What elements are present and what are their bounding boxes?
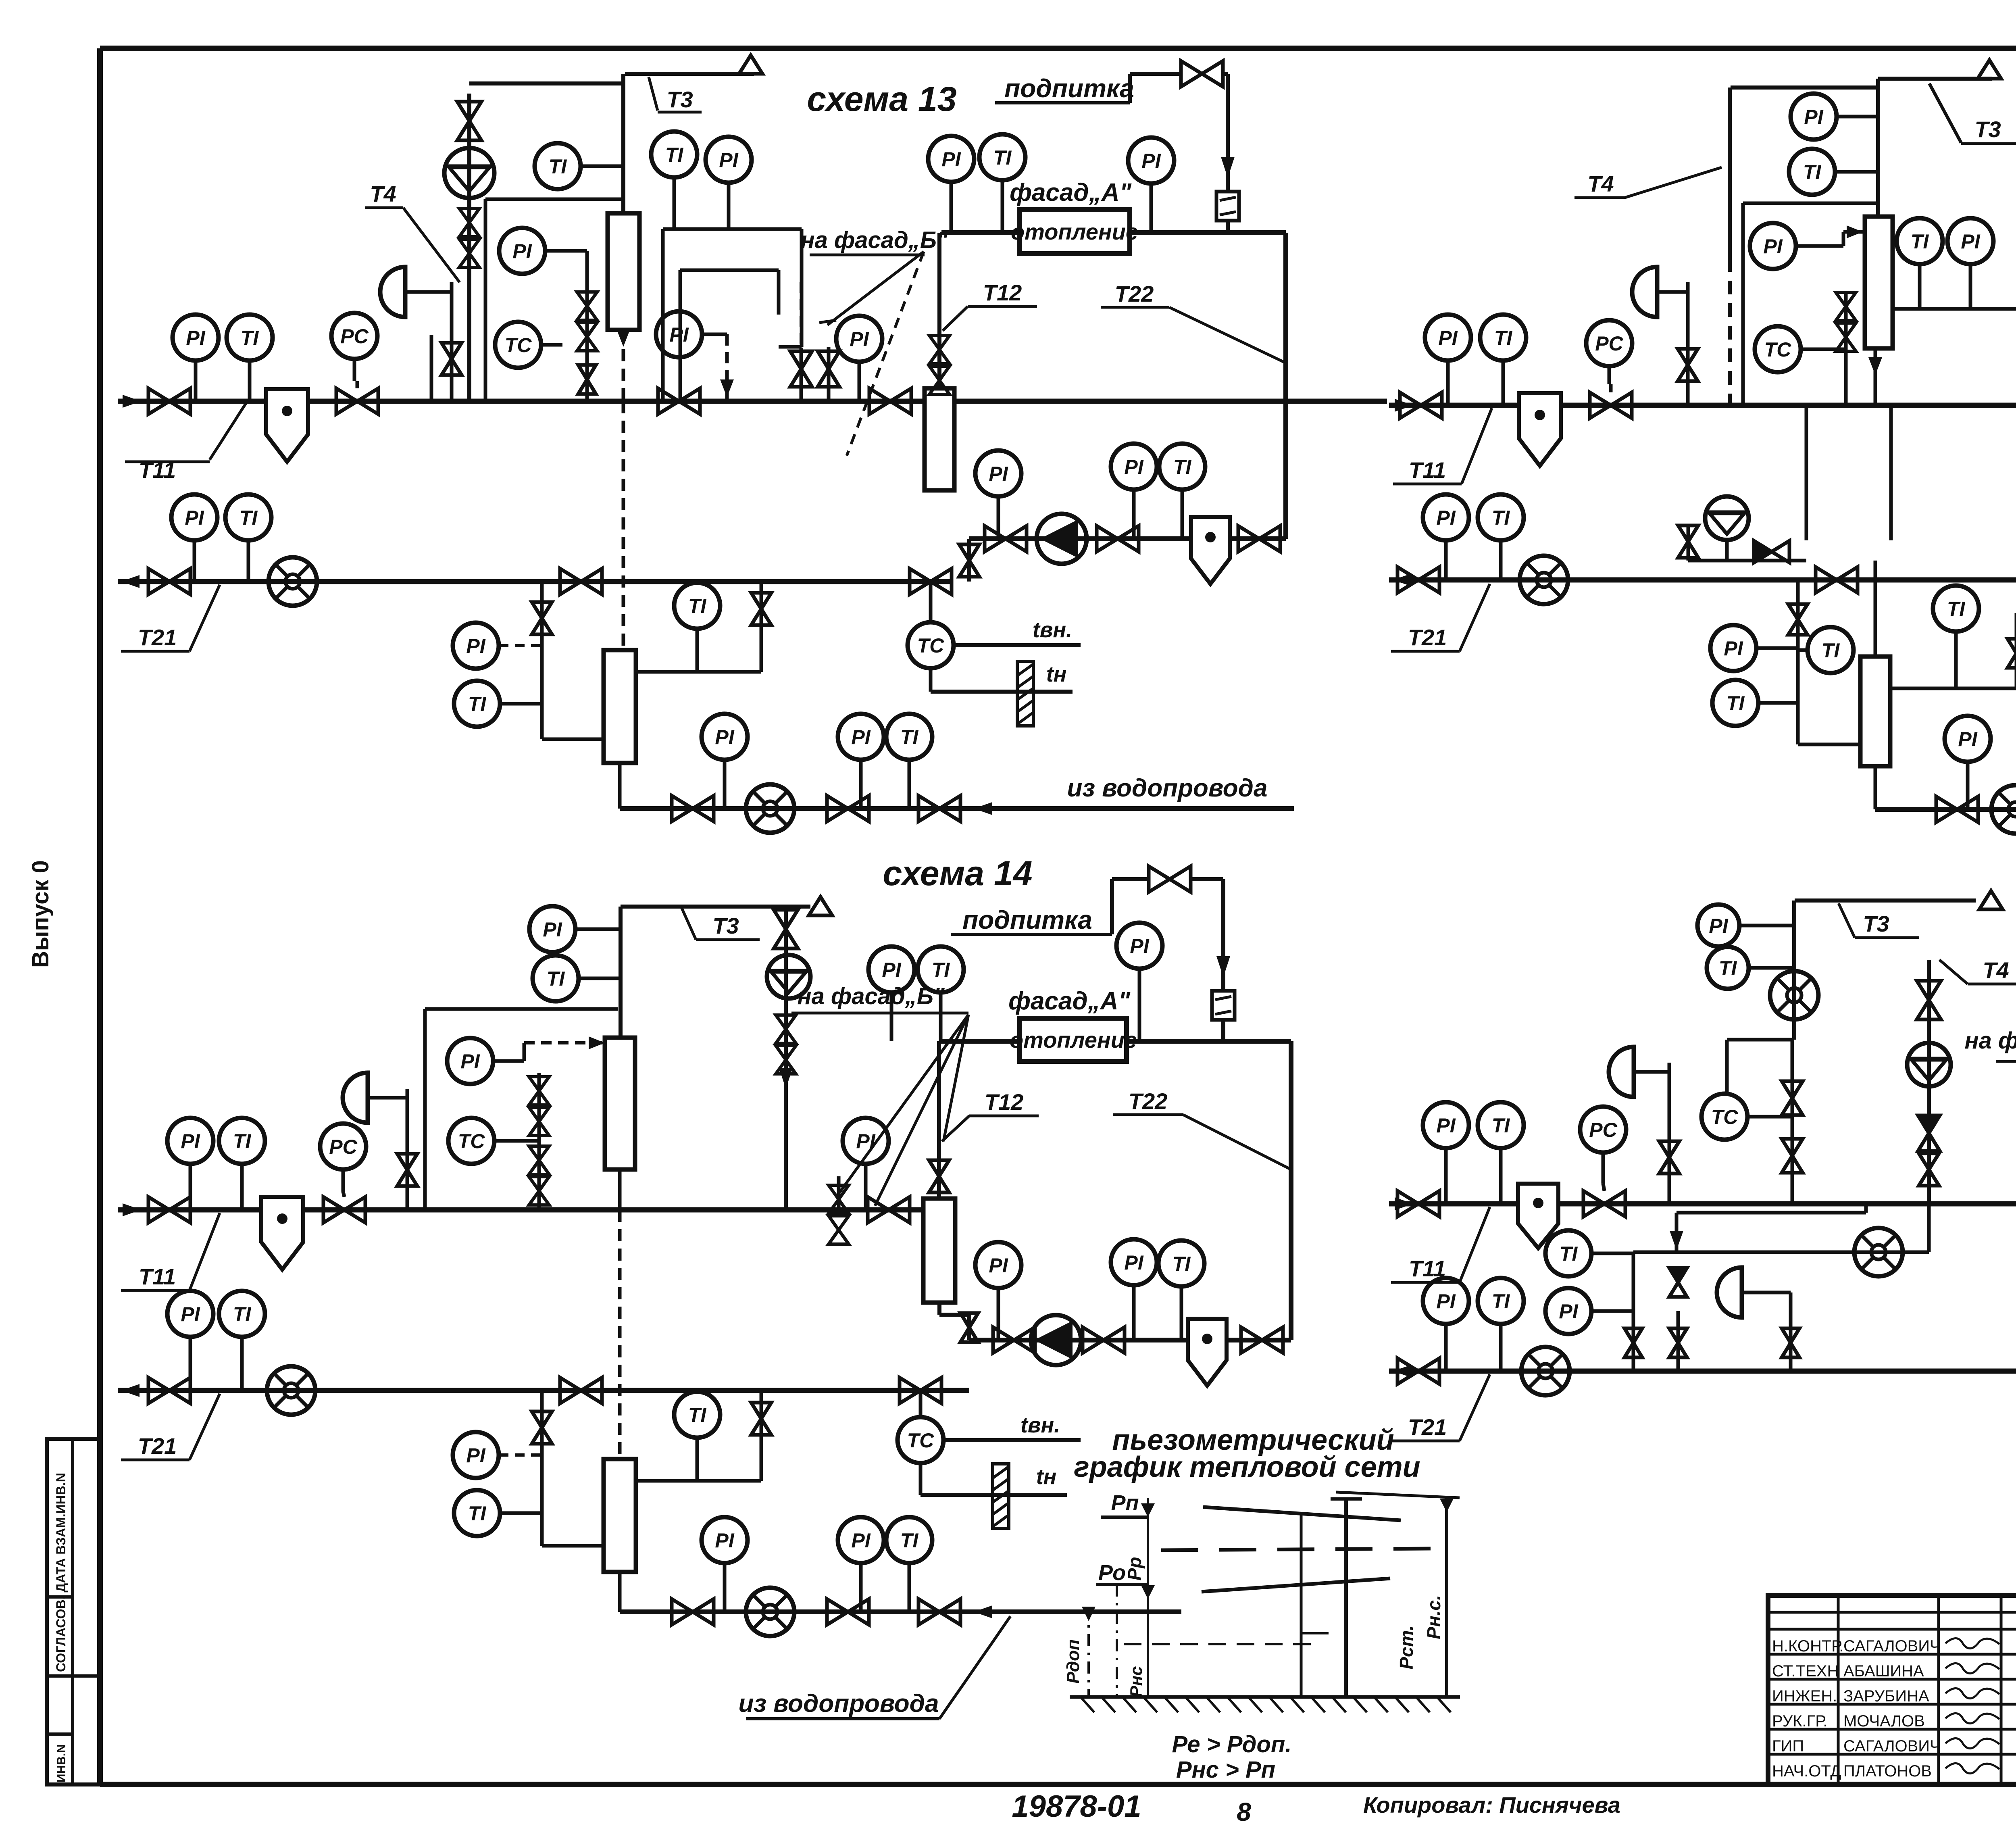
water main line (scheme 15) (1874, 766, 1877, 809)
svg-text:Т22: Т22 (1129, 1088, 1168, 1114)
water valve (672, 1599, 714, 1625)
instrument PI (173, 315, 219, 401)
T11 supply pipe (scheme 14) (118, 1207, 923, 1213)
svg-text:TI: TI (900, 726, 919, 748)
instrument TI (1478, 1102, 1524, 1204)
instrument PI (1697, 905, 1794, 946)
pump (1031, 1315, 1081, 1365)
valve under HX (960, 1313, 978, 1342)
heating circuit top line (939, 1039, 1291, 1044)
instrument TI (979, 134, 1025, 233)
dim arrow (1141, 1585, 1155, 1599)
heat exchanger 3 (604, 650, 636, 763)
mud collector (1188, 1319, 1227, 1386)
svg-text:Т12: Т12 (983, 280, 1022, 305)
instrument TI (918, 946, 964, 1041)
svg-text:Т4: Т4 (1983, 957, 2009, 983)
T4 riser (scheme 14) (784, 907, 788, 1210)
instrument TI (674, 583, 720, 672)
valve on T11 (1397, 1191, 1439, 1217)
dim arrow (1440, 1499, 1454, 1512)
elevator pump (1907, 1043, 1951, 1086)
dim arrow (1141, 1503, 1155, 1517)
flow arrow (1221, 157, 1235, 178)
instrument TI (454, 1490, 542, 1536)
valve (1782, 1328, 1799, 1357)
instrument PI (706, 137, 752, 229)
T3 header box (625, 72, 754, 76)
instrument TI (454, 681, 542, 727)
svg-text:Копировал: Писнячева: Копировал: Писнячева (1363, 1792, 1620, 1818)
svg-text:tн: tн (1046, 662, 1067, 686)
water valve (1936, 796, 1978, 822)
instrument TC (1702, 1094, 1792, 1140)
instrument PI (171, 494, 217, 582)
make-up regulator (1216, 192, 1239, 221)
svg-text:TI: TI (688, 1404, 707, 1426)
svg-text:Т3: Т3 (712, 913, 739, 938)
svg-text:PI: PI (466, 1444, 485, 1467)
heat exchanger 3 (scheme 15) (1860, 657, 1890, 766)
svg-text:tн: tн (1036, 1465, 1057, 1489)
instrument PI (1791, 94, 1878, 140)
return flow arrow (121, 575, 140, 588)
svg-text:Т11: Т11 (139, 1264, 176, 1289)
instrument TI (1707, 947, 1794, 989)
svg-text:PI: PI (512, 240, 532, 263)
vent flag (1978, 60, 2001, 79)
valve (1919, 1153, 1939, 1186)
instrument PI (1128, 138, 1174, 233)
svg-text:TI: TI (1173, 1253, 1191, 1275)
instrument PC (320, 1124, 366, 1192)
svg-text:PI: PI (882, 959, 901, 981)
balancing valves (1836, 292, 1856, 351)
svg-text:на фасад„Б": на фасад„Б" (801, 227, 948, 253)
svg-text:ИНЖЕН.: ИНЖЕН. (1772, 1687, 1837, 1705)
instrument TI (535, 143, 623, 189)
T3 header (scheme 16) (1795, 898, 1976, 903)
instrument TI (1933, 586, 1979, 688)
svg-text:PI: PI (989, 463, 1008, 485)
svg-text:TI: TI (241, 327, 259, 349)
instrument PI (167, 1291, 213, 1390)
svg-text:PI: PI (1724, 637, 1743, 660)
valve before HX (869, 388, 911, 414)
svg-text:TI: TI (1560, 1242, 1578, 1265)
heat exchanger 1 (scheme 15) (1865, 217, 1893, 348)
svg-text:АБАШИНА: АБАШИНА (1843, 1662, 1924, 1680)
T21 return pipe (scheme 14) (118, 1388, 969, 1393)
wall sensor (1017, 661, 1033, 726)
flow meter (1770, 971, 1818, 1019)
svg-text:Н.КОНТР.: Н.КОНТР. (1772, 1637, 1844, 1655)
valve (1678, 525, 1698, 558)
svg-text:СТ.ТЕХН: СТ.ТЕХН (1772, 1662, 1839, 1680)
svg-text:отопление: отопление (1011, 219, 1138, 244)
valve on T21 (1816, 567, 1858, 593)
svg-text:TC: TC (458, 1130, 485, 1153)
control valve (336, 388, 378, 414)
inner frame (1741, 203, 1745, 405)
instrument PI (1111, 444, 1157, 539)
svg-text:Т4: Т4 (1587, 171, 1614, 196)
svg-text:Рнс: Рнс (1127, 1666, 1145, 1697)
T3 riser with flow meter (1792, 901, 1796, 1040)
instrument PC (1580, 1107, 1626, 1184)
svg-text:PI: PI (1124, 456, 1143, 478)
return flow arrow (121, 1384, 140, 1397)
svg-text:TI: TI (1727, 692, 1745, 715)
check arrow (1670, 1231, 1683, 1250)
svg-text:PI: PI (715, 1529, 734, 1552)
flow meter (1854, 1228, 1903, 1276)
bypass valve B (818, 351, 839, 387)
balancing valves A (529, 1077, 549, 1136)
svg-text:САГАЛОВИЧ: САГАЛОВИЧ (1843, 1637, 1941, 1655)
svg-text:Рн.с.: Рн.с. (1423, 1595, 1444, 1639)
instrument PI (167, 1118, 213, 1210)
instrument PI (928, 136, 974, 233)
elevator pump (767, 955, 810, 999)
water meter valve (827, 796, 869, 821)
svg-text:Т21: Т21 (138, 625, 177, 650)
supply flow arrow (123, 1203, 141, 1216)
regulator actuator (1717, 1267, 1742, 1317)
valve under HX (959, 544, 979, 577)
water valve (672, 796, 714, 821)
circuit pump line (scheme 14) (937, 1303, 941, 1315)
svg-text:PI: PI (543, 918, 562, 941)
right boundary vertical (1445, 1498, 1448, 1697)
svg-text:PC: PC (329, 1136, 357, 1158)
svg-text:PI: PI (669, 323, 689, 346)
instrument PI (447, 1038, 524, 1084)
instrument PI (1710, 625, 1798, 671)
P_dop dimension (1087, 1607, 1090, 1697)
svg-text:Т21: Т21 (1408, 625, 1447, 650)
svg-text:PI: PI (851, 1529, 871, 1552)
T21 return pipe (118, 579, 952, 584)
svg-text:TI: TI (665, 144, 684, 166)
instrument TI (1159, 444, 1205, 539)
instrument PI (843, 1118, 889, 1210)
svg-text:PC: PC (340, 325, 369, 348)
instrument PI (529, 906, 621, 952)
vent flag (739, 55, 762, 74)
pump discharge valve (1083, 1327, 1125, 1353)
circuit right edge (1283, 233, 1288, 539)
svg-text:Т22: Т22 (1115, 281, 1154, 306)
heating radiator box (1019, 210, 1130, 254)
svg-text:Рнс > Рп: Рнс > Рп (1176, 1757, 1275, 1783)
make-up riser (1226, 221, 1230, 233)
svg-text:отопление: отопление (1010, 1027, 1137, 1053)
svg-text:на фасад„Б": на фасад„Б" (798, 983, 945, 1009)
pump (1037, 514, 1087, 564)
arrow into HX (1847, 225, 1863, 238)
svg-text:TI: TI (468, 1502, 487, 1525)
svg-text:8: 8 (1237, 1797, 1251, 1824)
svg-text:ЗАРУБИНА: ЗАРУБИНА (1843, 1687, 1929, 1705)
supply flow arrow (1395, 1197, 1413, 1210)
instrument PI (1750, 223, 1843, 269)
svg-text:ИНВ.N: ИНВ.N (55, 1744, 68, 1782)
mud collector (1518, 1184, 1558, 1248)
svg-text:PI: PI (1141, 150, 1161, 172)
impulse valve (1659, 1141, 1679, 1174)
T3 header box (1731, 85, 1878, 90)
svg-text:ГИП: ГИП (1772, 1737, 1804, 1755)
left margin stamp table (47, 1439, 100, 1784)
instrument PI (1423, 494, 1469, 580)
impulse valve (442, 343, 462, 375)
svg-text:TC: TC (907, 1429, 935, 1452)
svg-text:PI: PI (1763, 235, 1783, 258)
balancing valves (577, 292, 597, 351)
svg-text:PI: PI (1436, 1114, 1456, 1137)
up arrow (779, 1068, 793, 1089)
valve on DHW riser (532, 1411, 552, 1444)
instrument PI (453, 1432, 499, 1478)
svg-text:Т11: Т11 (1409, 457, 1446, 483)
instrument PI (453, 623, 499, 669)
P_ns dimension line (1124, 1643, 1315, 1645)
instrument TI (1478, 494, 1524, 580)
svg-text:TI: TI (993, 146, 1012, 169)
valve on T11 (148, 388, 190, 414)
flow meter (269, 557, 317, 606)
return flow arrow (1393, 1365, 1412, 1378)
instrument PI (499, 228, 587, 274)
svg-text:TI: TI (1492, 1290, 1510, 1313)
mud collector (1519, 393, 1561, 466)
water inlet valve (918, 1599, 960, 1625)
svg-text:TI: TI (1947, 598, 1966, 620)
instrument PC (1586, 320, 1632, 384)
svg-text:PI: PI (1436, 1290, 1456, 1313)
svg-text:PI: PI (1961, 230, 1980, 253)
svg-text:подпитка: подпитка (1004, 74, 1134, 103)
T21 return pipe (scheme 16) (1389, 1369, 2016, 1374)
T11 leader (125, 403, 246, 462)
svg-text:схема 13: схема 13 (807, 80, 956, 119)
heat exchanger 2 (scheme 14) (923, 1199, 955, 1303)
svg-text:Т21: Т21 (138, 1433, 177, 1459)
instrument PI (1425, 315, 1471, 405)
svg-text:TI: TI (932, 959, 950, 981)
svg-text:Т12: Т12 (985, 1089, 1024, 1115)
elevator pump (1705, 496, 1749, 540)
svg-text:19878-01: 19878-01 (1012, 1789, 1141, 1824)
valve (578, 365, 596, 394)
svg-text:PI: PI (1130, 935, 1149, 957)
check valve (1918, 1115, 1940, 1151)
flow meter (267, 1366, 315, 1415)
valve on T11 (1400, 392, 1442, 418)
svg-text:TI: TI (1822, 639, 1840, 662)
heat exchanger 1 (608, 213, 639, 330)
svg-text:РУК.ГР.: РУК.ГР. (1772, 1712, 1828, 1730)
valve at TC branch (910, 569, 952, 594)
instrument PI (975, 450, 1021, 539)
elevator pump (444, 148, 494, 198)
instrument TI (1158, 1240, 1204, 1340)
bypass valves (829, 1185, 849, 1244)
svg-text:TI: TI (233, 1130, 252, 1153)
make-up regulator (1212, 991, 1235, 1020)
svg-text:TI: TI (1492, 1114, 1510, 1137)
instrument TC (898, 1417, 943, 1463)
svg-text:TI: TI (900, 1529, 919, 1552)
double valve on T4 (459, 208, 479, 267)
instrument TI (225, 494, 271, 582)
water meter valve (827, 1599, 869, 1625)
svg-text:TC: TC (1711, 1106, 1739, 1128)
svg-text:ПЛАТОНОВ: ПЛАТОНОВ (1843, 1762, 1932, 1780)
valve on T11 (658, 388, 700, 414)
mixing valve B (1782, 1139, 1803, 1173)
valve on T21 (148, 1378, 190, 1403)
balancing valves B (529, 1146, 549, 1205)
valve at TC branch (900, 1378, 941, 1403)
svg-text:PI: PI (186, 327, 205, 349)
svg-text:Ро: Ро (1098, 1561, 1126, 1585)
svg-text:PI: PI (1709, 915, 1728, 937)
P_p head line (1203, 1507, 1401, 1520)
supply flow arrow (1395, 399, 1413, 412)
svg-text:Т4: Т4 (370, 181, 396, 206)
mud collector (261, 1197, 303, 1270)
regulator actuator (343, 1073, 368, 1123)
instrument TC (1755, 326, 1846, 372)
check valve (1669, 1268, 1687, 1297)
svg-text:PI: PI (185, 507, 204, 529)
svg-text:TI: TI (233, 1303, 252, 1326)
instrument TI (651, 131, 697, 229)
fan leaders to facade B (827, 252, 924, 325)
instrument PI (1423, 1102, 1469, 1204)
make-up valve (1181, 61, 1223, 87)
instrument PI (1111, 1239, 1157, 1340)
flow meter (746, 784, 794, 833)
instrument TI (1545, 1230, 1633, 1276)
svg-text:TI: TI (1803, 161, 1822, 183)
svg-text:Ре > Рдоп.: Ре > Рдоп. (1172, 1731, 1291, 1757)
heat exchanger 1 (scheme 14) (605, 1038, 635, 1169)
svg-text:Т21: Т21 (1408, 1414, 1447, 1440)
instrument TC (908, 622, 954, 668)
svg-text:TI: TI (240, 507, 258, 529)
svg-text:PI: PI (460, 1050, 480, 1073)
instrument TI (886, 714, 932, 809)
svg-text:Рп: Рп (1111, 1491, 1139, 1515)
heating regulator piping (663, 227, 802, 231)
svg-text:TI: TI (1719, 957, 1737, 980)
regulator actuator (1609, 1047, 1634, 1097)
svg-text:PI: PI (719, 149, 738, 171)
flow arrow (1216, 956, 1230, 977)
instrument TI (1799, 627, 1854, 673)
svg-text:TI: TI (468, 693, 487, 715)
mixing box (1727, 1038, 1794, 1042)
T4 riser (467, 94, 471, 401)
pump suction valve (985, 526, 1027, 552)
instrument TI (1789, 149, 1878, 195)
svg-text:PI: PI (466, 635, 485, 657)
flow meter (1520, 556, 1568, 604)
instrument PI (868, 946, 914, 1041)
impulse valve (397, 1154, 417, 1186)
control valve (1590, 392, 1632, 418)
svg-text:фасад„А": фасад„А" (1010, 179, 1132, 206)
svg-text:PC: PC (1595, 332, 1623, 355)
arrow up (720, 379, 734, 397)
svg-text:PI: PI (1958, 728, 1977, 750)
instrument PI (702, 714, 748, 809)
valve on T21 (1397, 567, 1439, 593)
instrument PI (838, 1517, 884, 1612)
fan leaders to facade B (839, 1015, 968, 1194)
T3 riser (scheme 14) (619, 907, 623, 1038)
water main line (scheme 14) (618, 1572, 622, 1612)
T11 supply pipe (118, 399, 925, 404)
heat exchanger 3 (scheme 14) (604, 1459, 636, 1572)
svg-text:TI: TI (1911, 230, 1929, 253)
regulator actuator (380, 267, 405, 317)
title block frame (1768, 1595, 2016, 1784)
make-up valve (1149, 866, 1191, 892)
svg-text:TI: TI (1492, 507, 1510, 529)
supply flow arrow (123, 395, 141, 408)
svg-text:Т3: Т3 (1863, 911, 1889, 936)
valve on T21 (560, 1378, 602, 1403)
instrument TC (448, 1118, 539, 1164)
instrument PC (331, 313, 377, 381)
heating circuit top line (941, 230, 1286, 235)
circuit pump line (969, 536, 1286, 541)
svg-text:PI: PI (715, 726, 734, 748)
svg-text:Рст.: Рст. (1396, 1625, 1417, 1669)
svg-text:PC: PC (1589, 1119, 1617, 1141)
water main line (618, 763, 622, 809)
svg-text:TC: TC (917, 634, 945, 657)
impulse valve (1678, 349, 1698, 381)
instrument PI (1945, 716, 1991, 809)
svg-text:PI: PI (1559, 1300, 1578, 1323)
valve on T4 (457, 102, 481, 140)
svg-text:PI: PI (989, 1254, 1008, 1277)
P_o drop vertical (1116, 1584, 1118, 1697)
instrument PI (1545, 1288, 1633, 1334)
svg-text:PI: PI (850, 328, 869, 350)
instrument TI (227, 315, 273, 401)
flow meter (746, 1588, 794, 1636)
T21 return pipe (scheme 15) (1389, 577, 2016, 583)
arrow up into HX (1868, 357, 1882, 375)
svg-text:PI: PI (1124, 1251, 1143, 1274)
arrow into HX (589, 1036, 605, 1049)
instrument TI (219, 1118, 265, 1210)
svg-text:фасад„А": фасад„А" (1008, 987, 1131, 1015)
valve (1669, 1328, 1687, 1357)
instrument TC (495, 322, 562, 368)
valve before HX (868, 1197, 910, 1223)
instrument PI (1423, 1278, 1469, 1371)
instrument TI (1478, 1278, 1524, 1371)
make-up riser (1221, 1020, 1225, 1041)
svg-text:PI: PI (856, 1130, 875, 1153)
